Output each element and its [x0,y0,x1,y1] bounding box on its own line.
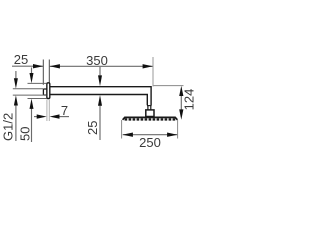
shower arm top edge [50,87,151,106]
svg-text:124: 124 [182,89,197,111]
shower head top profile [123,117,178,119]
dimension 25 arm lower line [99,103,101,140]
extension tick left (wall face) [42,60,44,85]
svg-text:50: 50 [17,127,32,141]
svg-text:350: 350 [86,53,108,68]
dimension 124 line [180,93,182,112]
arm top extension line right [154,85,184,87]
connector joint line [147,105,152,107]
dimension 25 line [12,65,43,67]
svg-text:25: 25 [14,52,28,67]
dimension 25 arm bottom arrow [98,95,102,106]
dimension 350 right arrow [143,64,153,68]
svg-text:250: 250 [139,135,161,150]
dimension 250 line [123,134,178,136]
head left extension line [121,120,123,139]
svg-text:25: 25 [85,121,100,135]
dimension 25 arm top arrow [98,75,102,86]
connector neck [148,106,151,110]
dimension 7 right arrow [50,114,60,118]
svg-text:G1/2: G1/2 [1,113,16,141]
svg-text:7: 7 [61,103,68,118]
dimension 350 left arrow [50,64,60,68]
wall flange [47,83,50,99]
dimension G1/2 bottom arrow [14,95,18,105]
flange top extension line [28,82,47,84]
dimension 25 arrow [33,64,43,68]
dimension 124 bottom arrow [179,109,183,119]
flange thickness extension lines (7) [47,100,49,122]
dimension 7 left lead and arrow [34,116,38,118]
flange bottom extension line [28,98,47,100]
dimension 7 right lead [58,116,69,118]
dimension G1/2 top arrow [14,78,18,88]
dimension G1/2 upper line [15,71,17,82]
dimension 50 bottom arrow [30,99,34,109]
connector flare nut [146,110,154,117]
dimension 250 right arrow [167,133,177,137]
dimension 50 top arrow [30,73,34,83]
nipple bottom extension line [13,94,47,96]
dimension 124 top arrow [179,86,183,96]
nipple top extension line [13,88,44,90]
shower arm bottom edge [50,95,147,106]
dimension 250 left arrow [123,133,133,137]
shower head nozzle row [125,118,176,120]
dimension 350 line [49,65,153,67]
extension tick right (arm start) [48,60,50,83]
dimension 50 lower line [31,105,33,142]
dimension 50 upper line [31,68,33,77]
head right extension line [177,120,179,139]
dimension 25 (arm height) upper line [99,67,101,79]
thread nipple G1/2 [43,89,46,95]
extension line arm end [152,57,154,87]
dimension G1/2 lower line [15,100,17,141]
